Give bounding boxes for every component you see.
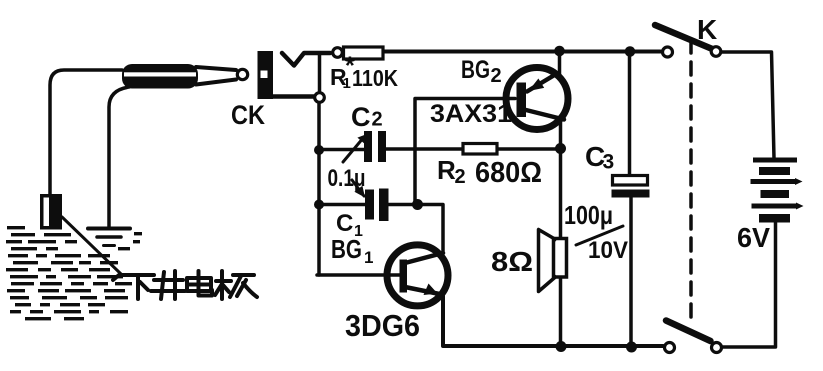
svg-text:100μ: 100μ xyxy=(564,200,613,230)
svg-text:R: R xyxy=(437,155,456,185)
svg-text:2: 2 xyxy=(372,109,383,131)
svg-text:2: 2 xyxy=(491,65,502,87)
svg-text:1: 1 xyxy=(364,248,373,267)
svg-text:CK: CK xyxy=(231,100,265,130)
svg-text:110K: 110K xyxy=(352,65,398,91)
svg-text:K: K xyxy=(697,14,717,45)
svg-text:BG: BG xyxy=(461,56,490,84)
svg-text:680Ω: 680Ω xyxy=(475,157,542,189)
svg-text:0.1μ: 0.1μ xyxy=(328,165,366,192)
svg-text:3: 3 xyxy=(603,151,615,174)
svg-text:2: 2 xyxy=(455,166,466,188)
svg-text:3AX31: 3AX31 xyxy=(430,100,512,128)
svg-text:C: C xyxy=(336,210,353,237)
svg-text:10V: 10V xyxy=(588,237,628,264)
svg-text:8Ω: 8Ω xyxy=(491,246,533,277)
svg-text:6V: 6V xyxy=(737,222,770,253)
svg-text:3DG6: 3DG6 xyxy=(345,308,420,343)
svg-text:BG: BG xyxy=(331,234,362,264)
svg-text:C: C xyxy=(351,102,371,132)
